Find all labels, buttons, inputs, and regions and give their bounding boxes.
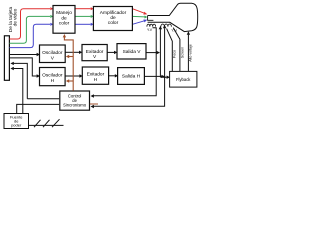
svg-text:Exitador: Exitador <box>87 71 105 77</box>
svg-text:Manejo: Manejo <box>56 10 72 16</box>
svg-text:poder: poder <box>11 123 22 128</box>
svg-text:de: de <box>110 15 116 21</box>
svg-text:Foco: Foco <box>173 50 177 58</box>
svg-text:Oscilador: Oscilador <box>42 50 63 56</box>
svg-text:color: color <box>108 20 119 26</box>
svg-text:Sincronismo: Sincronismo <box>63 102 87 107</box>
svg-text:Oscilador: Oscilador <box>42 73 63 79</box>
svg-text:Y.V: Y.V <box>147 28 153 32</box>
svg-text:Salida V: Salida V <box>123 49 142 55</box>
svg-text:color: color <box>59 21 70 27</box>
svg-text:de: de <box>61 15 67 21</box>
svg-text:Amplificador: Amplificador <box>100 10 127 16</box>
svg-text:H: H <box>94 77 98 83</box>
svg-text:de video: de video <box>12 8 17 26</box>
svg-text:Exitador: Exitador <box>86 49 104 55</box>
svg-text:H: H <box>51 78 55 84</box>
svg-text:Salida H: Salida H <box>122 74 141 80</box>
svg-text:Flyback: Flyback <box>176 77 191 82</box>
svg-text:Screen: Screen <box>180 47 184 58</box>
svg-text:Alto voltaje: Alto voltaje <box>189 44 193 62</box>
